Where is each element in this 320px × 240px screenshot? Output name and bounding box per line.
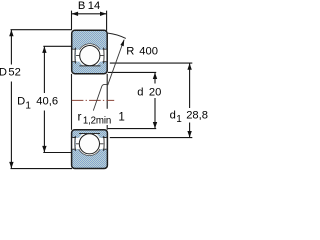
d dimension line <box>154 73 156 129</box>
D1 dimension line <box>43 47 45 153</box>
D dimension line <box>10 30 12 168</box>
raceway pocket upper <box>76 44 104 68</box>
R leader line lower <box>93 84 107 110</box>
svg-text:r: r <box>78 110 82 124</box>
R leader line upper <box>108 40 124 85</box>
B arrow left <box>72 12 79 16</box>
d1 dimension extension lines <box>110 63 193 138</box>
side face line left <box>71 74 73 130</box>
side face line right / r dimension line <box>106 74 108 130</box>
shield slot left upper <box>72 48 76 64</box>
svg-text:1,2min: 1,2min <box>83 116 111 127</box>
inner ring patch upper <box>78 66 102 73</box>
D1 dimension extension lines <box>43 46 72 152</box>
inner ring patch lower <box>78 131 101 134</box>
shield slot right upper <box>103 48 107 64</box>
svg-text:1: 1 <box>176 114 182 125</box>
svg-text:1: 1 <box>118 111 124 124</box>
svg-text:d: d <box>137 87 143 99</box>
svg-text:1: 1 <box>25 100 31 111</box>
outer/inner ring lower section <box>72 130 108 169</box>
ball upper <box>80 46 100 66</box>
R leader arrow <box>120 39 124 46</box>
raceway pocket lower <box>76 132 104 156</box>
cage pocket lines upper <box>76 54 103 56</box>
shield slot right lower <box>103 136 107 151</box>
d1 arrow top <box>187 63 191 69</box>
svg-text:B: B <box>78 0 85 12</box>
svg-text:D: D <box>17 95 25 107</box>
B dimension line <box>72 13 107 15</box>
svg-text:14: 14 <box>88 0 100 12</box>
svg-text:20: 20 <box>149 87 161 99</box>
svg-text:d: d <box>170 109 176 121</box>
svg-text:D: D <box>0 67 7 79</box>
d dimension extension lines <box>108 72 157 128</box>
D1 arrow top <box>42 46 46 53</box>
d arrow top <box>153 73 157 80</box>
D arrow bottom <box>9 162 13 169</box>
D dimension extension lines <box>11 30 73 169</box>
cage pocket lines lower <box>76 143 103 145</box>
inner ring land line lower <box>79 133 100 135</box>
svg-text:400: 400 <box>139 45 158 57</box>
D arrow top <box>9 30 13 37</box>
d1 arrow bottom <box>187 131 191 138</box>
axis centerline <box>72 99 114 101</box>
inner ring land line upper <box>79 65 100 67</box>
d1 dimension line <box>189 63 191 137</box>
D1 arrow bottom <box>42 146 46 153</box>
svg-text:R: R <box>126 45 134 57</box>
svg-text:52: 52 <box>8 67 20 79</box>
B dimension extension lines <box>72 11 107 31</box>
outer/inner ring upper section <box>72 30 108 73</box>
crowned OD arc <box>108 33 126 38</box>
d arrow bottom <box>153 122 157 129</box>
svg-text:40,6: 40,6 <box>36 95 58 107</box>
ball lower <box>79 134 99 154</box>
B arrow right <box>100 12 107 16</box>
svg-text:28,8: 28,8 <box>186 109 208 121</box>
shield slot left lower <box>72 136 76 151</box>
